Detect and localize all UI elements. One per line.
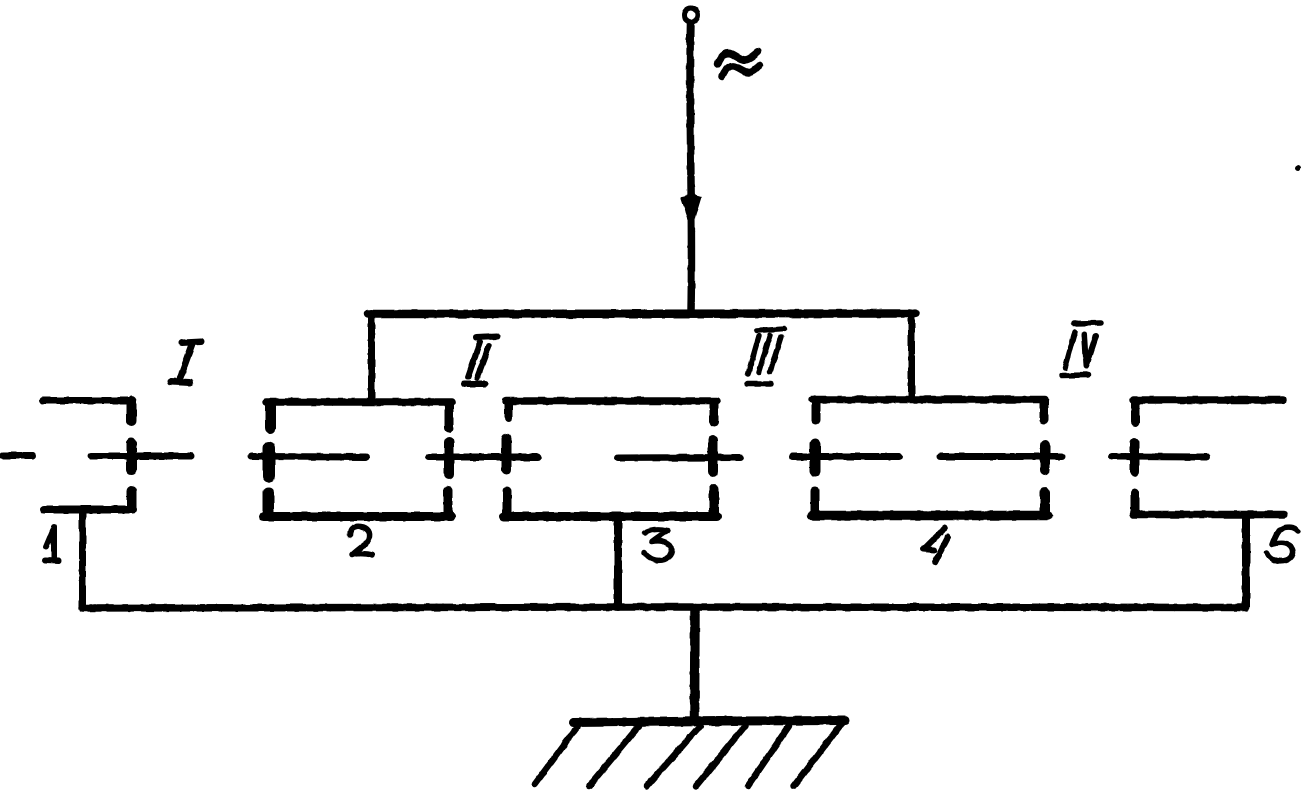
AC symbol (approx sign): [718, 52, 760, 77]
ground: [535, 721, 845, 787]
electrode label 2: [350, 527, 372, 555]
AC source terminal circle: [684, 8, 698, 22]
arrowhead on feed line (pointing down): [681, 194, 702, 230]
wire: drop from top bus to electrode 4: [908, 313, 915, 399]
wire: bottom bus: [82, 607, 1246, 608]
electrode 1: [43, 401, 133, 510]
electrode 3: [504, 401, 717, 517]
axis center line dashes: [3, 456, 1207, 459]
lens gap label IV: [1062, 323, 1101, 376]
electrode 2: [264, 402, 452, 517]
wire: electrode 3 drop to bottom bus: [614, 518, 622, 607]
lens gap label I: [171, 342, 201, 383]
wire: top bus: [368, 309, 915, 318]
electrode label 4: [923, 528, 948, 562]
electrode label 3: [645, 529, 672, 560]
stray ink speck: [1295, 165, 1301, 171]
wire: drop from top bus to electrode 2: [368, 313, 375, 401]
electrode label 1: [45, 527, 59, 561]
electrode label 5: [1267, 527, 1298, 561]
lens gap label II: [464, 336, 497, 384]
electrode 4: [812, 400, 1048, 516]
wire: feed line from terminal down to top bus: [690, 23, 692, 311]
wire: ground drop: [690, 608, 700, 721]
wire: electrode 1 drop to bottom bus: [79, 510, 86, 607]
lens gap label III: [747, 329, 784, 385]
wire: electrode 5 drop to bottom bus: [1242, 516, 1250, 607]
electrode 5: [1133, 400, 1284, 515]
